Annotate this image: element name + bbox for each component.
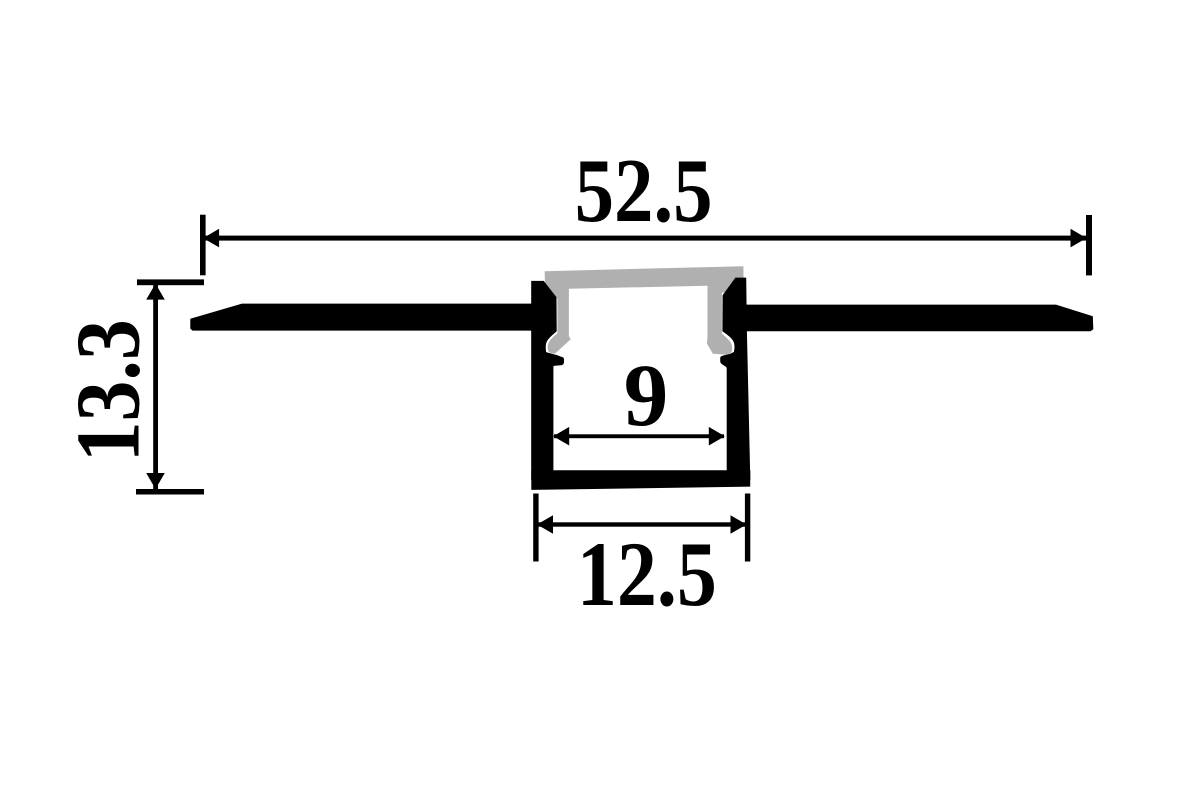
- arrowhead right (12.5): [731, 515, 747, 534]
- extension line left (12.5): [533, 494, 538, 562]
- left flange (wing) of profile: [190, 304, 545, 331]
- extension line right (12.5): [745, 494, 750, 562]
- arrowhead down (13.3): [146, 473, 165, 489]
- arrowhead up (13.3): [146, 284, 165, 300]
- dimension line 13.3 (vertical): [153, 284, 158, 489]
- extension tick bottom (13.3): [136, 489, 204, 495]
- channel base: [531, 470, 750, 490]
- arrowhead right (9): [709, 427, 725, 446]
- right wall of channel: [720, 278, 750, 480]
- left wall of channel: [531, 281, 564, 480]
- dimension line 52.5: [204, 236, 1088, 241]
- extension line left (52.5): [200, 215, 206, 276]
- extension tick top (13.3): [137, 279, 204, 285]
- dimension line 12.5: [538, 522, 746, 526]
- svg-text:52.5: 52.5: [575, 140, 713, 241]
- arrowhead left (12.5): [537, 515, 553, 534]
- dimension line 9: [554, 434, 724, 438]
- svg-text:9: 9: [624, 347, 669, 445]
- right flange (wing) of profile: [744, 305, 1093, 332]
- svg-text:12.5: 12.5: [577, 523, 717, 625]
- arrowhead right (52.5): [1071, 229, 1087, 248]
- gray diffuser cover with clip legs: [545, 266, 744, 354]
- arrowhead left (9): [553, 427, 569, 446]
- svg-text:13.3: 13.3: [58, 319, 159, 462]
- extension line right (52.5): [1086, 215, 1092, 275]
- arrowhead left (52.5): [203, 229, 219, 248]
